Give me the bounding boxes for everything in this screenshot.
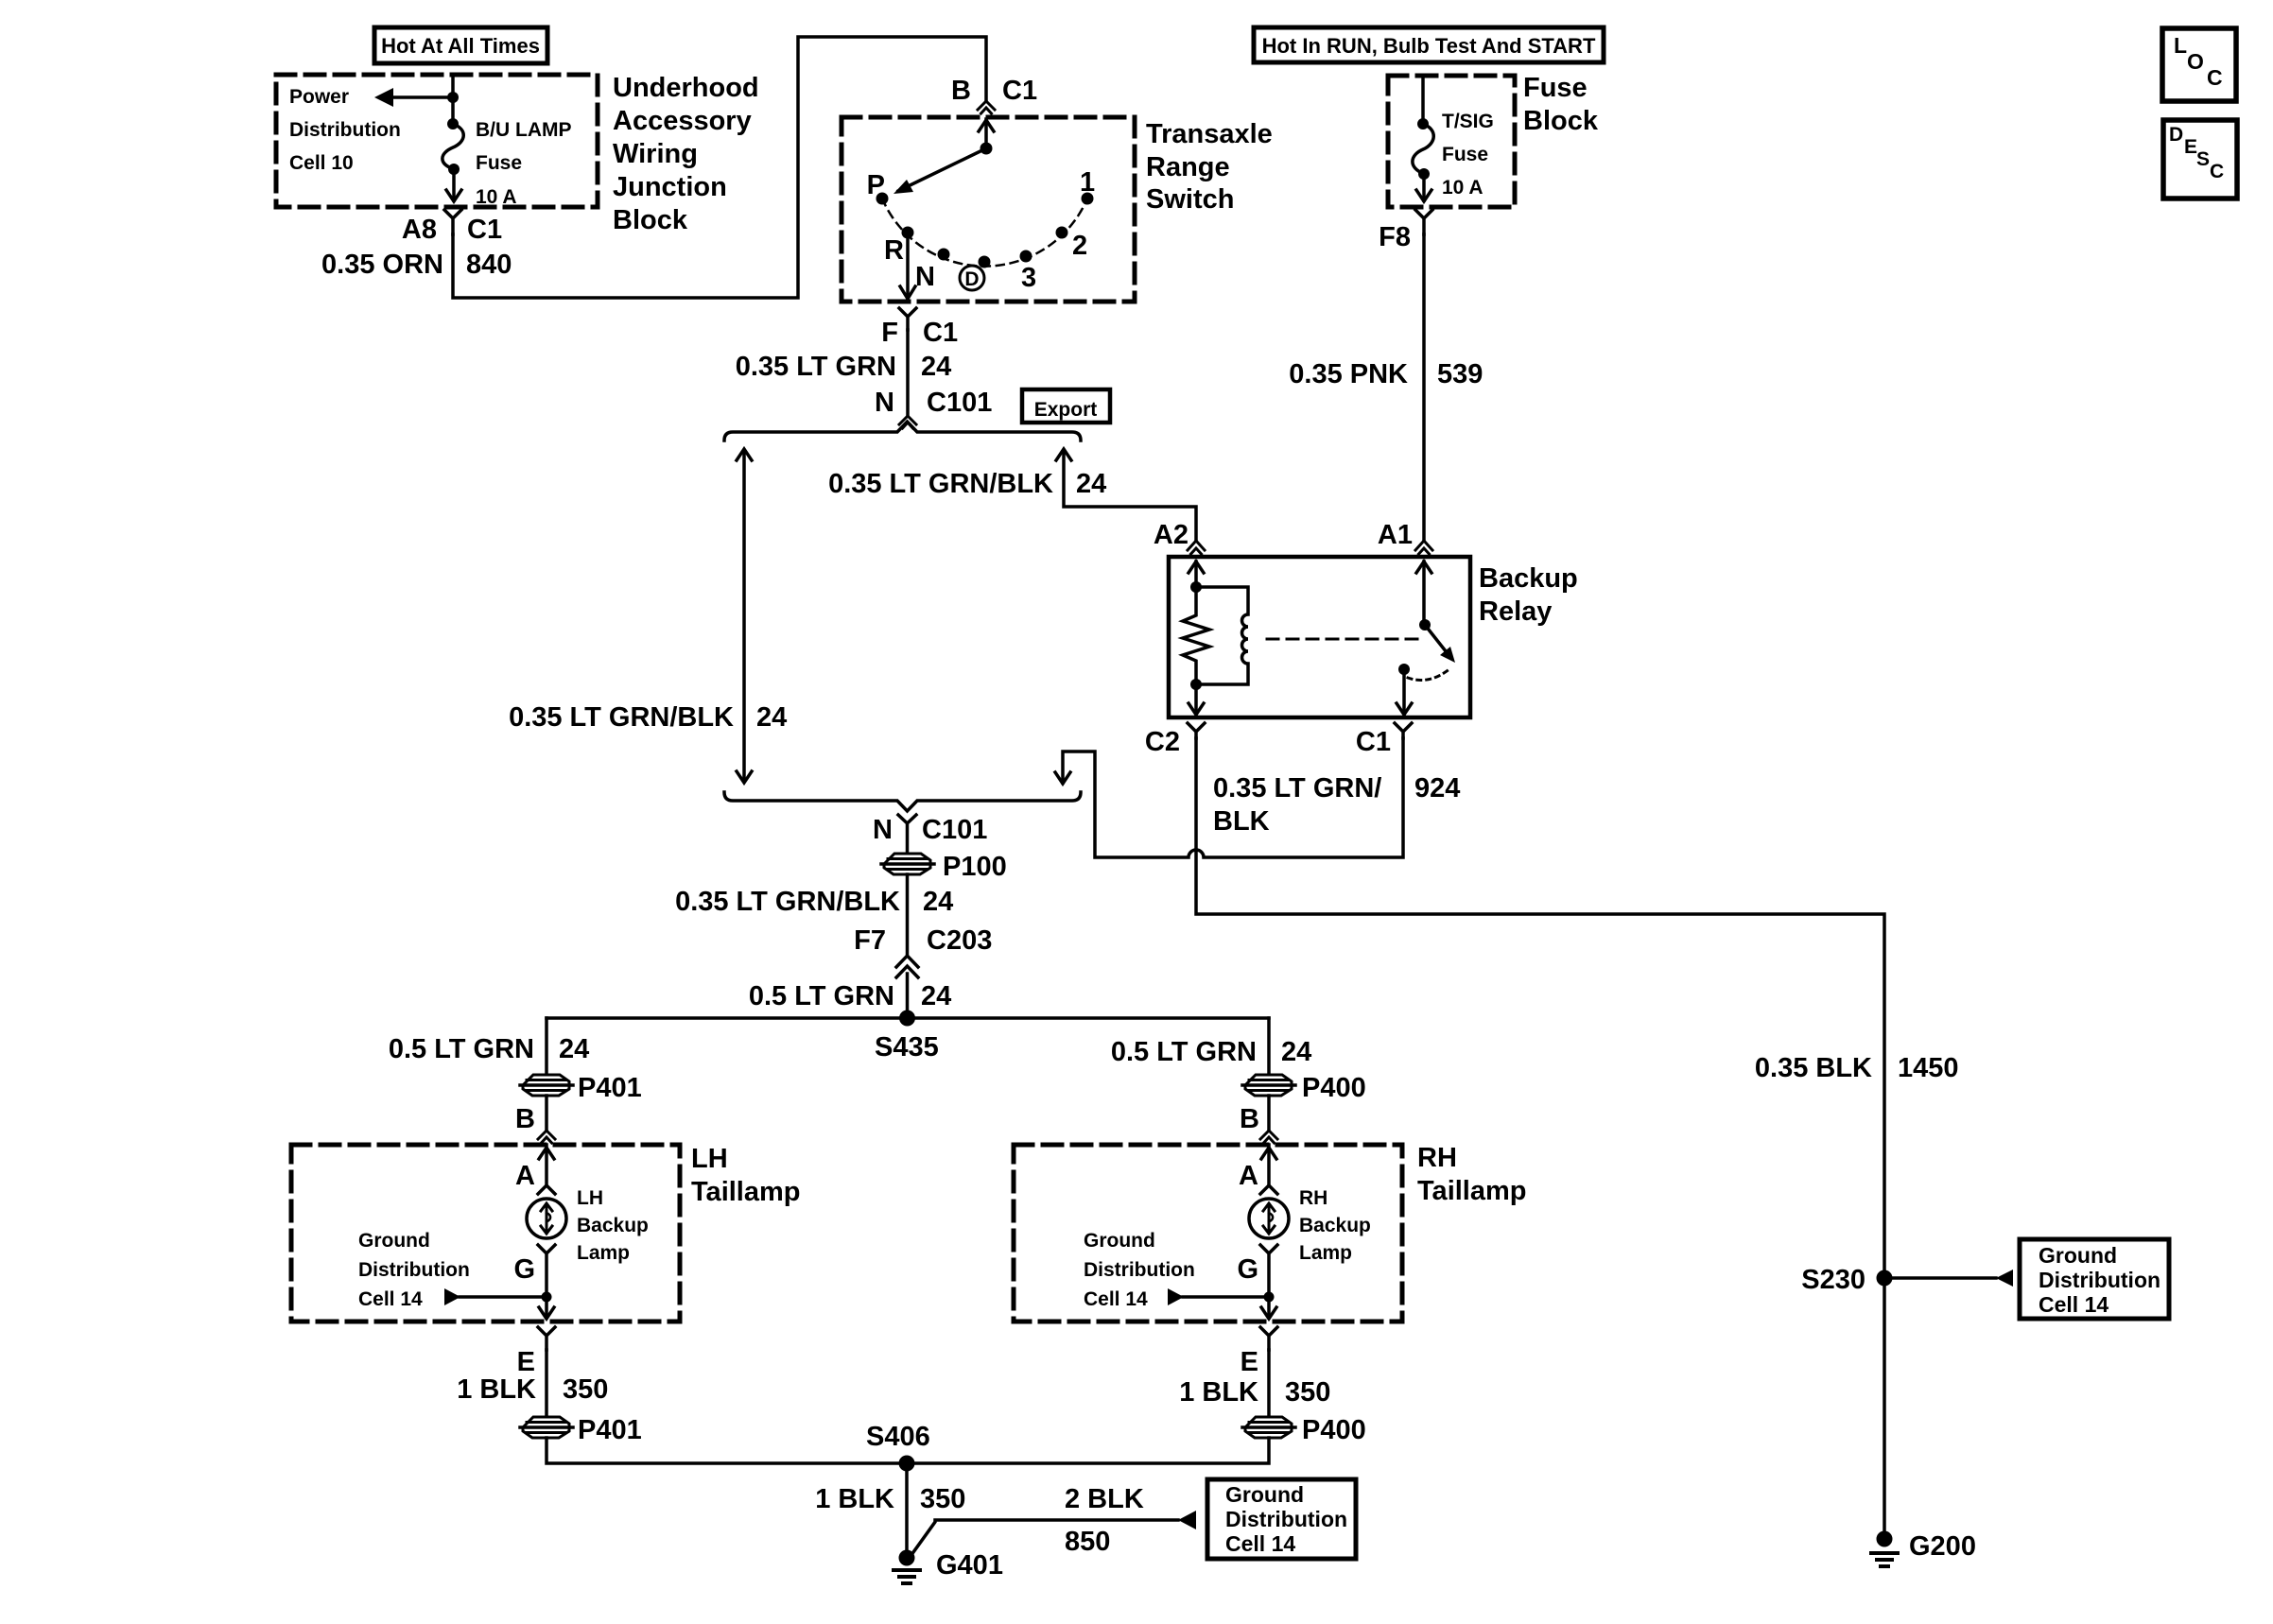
svg-text:LH: LH [577,1187,603,1209]
svg-text:L: L [2174,33,2187,58]
wire: into switch with up arrow [979,119,994,148]
lamp terminal G (Y) [538,1245,555,1297]
svg-text:B: B [951,76,971,106]
relay NO contact exit arrow [1397,669,1412,715]
fuse: B/U LAMP Fuse 10 A [442,118,463,175]
relay movable contact arrow [1425,625,1455,663]
reference box: Ground Distribution Cell 14 (bottom) [1207,1479,1356,1559]
svg-text:350: 350 [563,1374,608,1405]
wire: LH to S406 [547,1438,907,1463]
relay actuating link (dashed) [1267,638,1417,641]
pass-through grommet P401 (lower) [520,1417,573,1438]
svg-text:Fuse: Fuse [1523,73,1588,103]
svg-text:RH: RH [1299,1187,1327,1209]
alternates bracket top [724,422,1081,441]
ground G200 [1871,1531,1898,1567]
svg-text:Power: Power [289,86,349,108]
position 2 [1056,227,1068,239]
svg-text:S230: S230 [1801,1265,1865,1295]
label: D E S C letters [2169,124,2224,182]
connector terminal E (Y, RH) [1260,1327,1277,1350]
svg-text:Cell 14: Cell 14 [2039,1292,2108,1317]
alternates bracket bottom [724,792,1081,811]
svg-text:539: 539 [1437,359,1483,389]
svg-text:E: E [1241,1347,1258,1377]
switch position arc (dashed) [882,199,1087,267]
wire: lamp ground exit arrow (LH) [539,1297,554,1319]
svg-text:P100: P100 [943,852,1007,882]
switch pivot node [980,143,993,155]
svg-text:P400: P400 [1302,1415,1366,1445]
svg-text:Hot In RUN, Bulb Test And STAR: Hot In RUN, Bulb Test And START [1262,34,1596,58]
svg-text:A8: A8 [402,215,437,245]
svg-text:BLK: BLK [1213,806,1270,837]
wire: 0.35 LT GRN/BLK 24 to relay A2 [1056,449,1196,541]
wire: 0.35 ORN 840 to transaxle switch [453,37,986,298]
svg-text:P401: P401 [578,1073,642,1103]
svg-text:G: G [513,1254,535,1285]
wire: 1 BLK 350 to G401 [905,1463,909,1555]
svg-text:0.35 LT GRN/: 0.35 LT GRN/ [1213,773,1381,803]
svg-text:Backup: Backup [577,1215,649,1236]
svg-text:S: S [2196,148,2210,170]
svg-text:B/U LAMP: B/U LAMP [476,119,572,141]
relay resistor [1183,587,1209,684]
LH backup lamp bulb [527,1199,566,1238]
svg-text:24: 24 [923,887,953,917]
svg-text:B: B [515,1104,535,1134]
wire: 0.35 LT GRN/BLK 24 to C203 [906,874,910,955]
svg-text:Ground: Ground [2039,1243,2117,1268]
svg-text:0.35 LT GRN/BLK: 0.35 LT GRN/BLK [675,887,900,917]
svg-text:0.35 BLK: 0.35 BLK [1755,1053,1872,1083]
connector terminal E (Y, LH) [538,1327,555,1350]
wire: 0.5 LT GRN 24 to S435 [906,974,910,1018]
svg-text:C2: C2 [1145,727,1180,757]
svg-text:E: E [517,1347,535,1377]
svg-text:A2: A2 [1154,520,1189,550]
position 3 [1020,251,1032,263]
node: lamp ground junction (LH) [542,1292,552,1303]
label: L O C letters [2174,33,2223,90]
wire: LH drop 0.5 LT GRN 24 [545,1018,548,1076]
relay switch pivot node [1419,619,1431,631]
connector C101 terminal N (Y, lower) [898,815,916,854]
relay switch common arrow [1416,561,1431,625]
connector terminal F8 (Y) [1415,210,1432,234]
svg-text:2 BLK: 2 BLK [1065,1484,1144,1514]
svg-text:Accessory: Accessory [613,106,752,136]
svg-text:840: 840 [466,250,512,280]
connector C101 terminal N (Y) [899,416,916,428]
connector C1 terminal B (Y) [978,101,995,113]
switch wiper arrow to P [894,148,986,194]
svg-text:Underhood: Underhood [613,73,759,103]
svg-text:0.35 LT GRN/BLK: 0.35 LT GRN/BLK [509,702,734,733]
svg-text:Cell 14: Cell 14 [358,1288,423,1310]
svg-text:0.5 LT GRN: 0.5 LT GRN [749,981,894,1011]
wire: 0.35 LT GRN/BLK 24 (double-ended arrow, domestic path) [737,449,752,783]
wire: lamp pin A with up arrow [539,1145,554,1184]
svg-text:1 BLK: 1 BLK [815,1484,894,1514]
svg-text:Relay: Relay [1479,596,1552,627]
svg-text:Block: Block [613,205,688,235]
svg-text:1450: 1450 [1898,1053,1959,1083]
svg-text:Taillamp: Taillamp [1417,1176,1527,1206]
relay coil exit arrow [1189,684,1204,715]
svg-text:A1: A1 [1378,520,1413,550]
svg-text:P401: P401 [578,1415,642,1445]
reference arrow to Ground Distribution Cell 14 (right) [1884,1270,2013,1287]
relay coil feed arrow [1189,561,1204,587]
relay NO contact node [1398,664,1410,675]
wire: RH drop 0.5 LT GRN 24 [1267,1018,1271,1076]
svg-text:Junction: Junction [613,172,727,202]
svg-text:C1: C1 [923,318,958,348]
svg-text:10 A: 10 A [476,186,517,208]
svg-text:1 BLK: 1 BLK [1179,1377,1258,1408]
svg-text:24: 24 [921,981,951,1011]
svg-text:Taillamp: Taillamp [691,1177,801,1207]
transaxle range switch dashed box [842,117,1135,302]
svg-text:C1: C1 [467,215,502,245]
svg-text:N: N [915,262,935,292]
svg-text:R: R [884,235,904,266]
svg-text:G200: G200 [1909,1531,1976,1562]
reference box: Ground Distribution Cell 14 (right) [2020,1239,2169,1319]
fuse block dashed box [1388,76,1515,207]
relay terminal A2 (Y) [1188,541,1205,554]
label box: Hot In RUN, Bulb Test And START [1254,27,1604,62]
label box: Hot At All Times [374,27,547,63]
svg-text:D: D [964,268,979,290]
pass-through grommet P400 (lower) [1242,1417,1295,1438]
lamp terminal A (chevron) [538,1185,555,1194]
wire: fuse output with arrow [1416,174,1431,201]
splice S230 [1877,1270,1893,1287]
svg-text:Lamp: Lamp [1299,1242,1352,1264]
svg-text:C101: C101 [922,815,987,845]
svg-text:C1: C1 [1002,76,1037,106]
svg-text:Ground: Ground [358,1230,430,1252]
RH taillamp dashed box [1014,1145,1402,1322]
svg-text:0.35 LT GRN/BLK: 0.35 LT GRN/BLK [828,469,1053,499]
svg-text:24: 24 [756,702,787,733]
wire: 1 BLK 350 (RH) [1267,1350,1271,1418]
svg-text:Distribution: Distribution [1084,1259,1195,1281]
svg-text:Backup: Backup [1479,563,1578,594]
svg-text:Distribution: Distribution [1225,1507,1347,1531]
reference arrow from Ground Distribution (LH) [444,1288,547,1305]
svg-text:Cell 10: Cell 10 [289,152,354,174]
LH taillamp dashed box [291,1145,680,1322]
svg-text:C1: C1 [1356,727,1391,757]
wire: 0.35 BLK from relay C2 to ground run [1196,738,1884,1531]
svg-text:RH: RH [1417,1143,1457,1173]
svg-text:2: 2 [1072,231,1087,261]
position N [938,249,950,261]
position P [876,193,889,205]
reference arrow from Ground Distribution (RH) [1168,1288,1269,1305]
node: splice to power distribution [447,92,459,103]
svg-text:Transaxle: Transaxle [1146,119,1273,149]
svg-text:Ground: Ground [1084,1230,1155,1252]
connector terminal B (Y) [538,1131,555,1143]
wire: to LH taillamp B [545,1096,548,1131]
svg-text:C: C [2207,65,2223,90]
svg-text:A: A [1239,1161,1258,1191]
svg-text:LH: LH [691,1144,728,1174]
wire: feed into junction block [451,75,455,123]
svg-text:Cell 14: Cell 14 [1084,1288,1148,1310]
svg-text:850: 850 [1065,1527,1110,1557]
wire: 1 BLK 350 (LH) [545,1350,548,1418]
svg-text:24: 24 [1076,469,1106,499]
svg-text:Switch: Switch [1146,184,1234,215]
reference arrow to Power Distribution Cell 10 [374,88,453,107]
pass-through grommet P100 [881,854,934,874]
svg-text:24: 24 [1281,1037,1311,1067]
svg-text:D: D [2169,124,2183,146]
junction block dashed box: Underhood Accessory Wiring Junction Block [276,75,598,207]
svg-text:1 BLK: 1 BLK [457,1374,536,1405]
svg-text:Fuse: Fuse [476,152,522,174]
svg-text:Range: Range [1146,152,1230,182]
svg-text:Ground: Ground [1225,1482,1304,1507]
wire: to RH taillamp B [1267,1096,1271,1131]
svg-text:N: N [875,388,894,418]
label box: Export [1022,389,1110,423]
svg-text:350: 350 [920,1484,965,1514]
svg-text:350: 350 [1285,1377,1330,1408]
svg-text:Backup: Backup [1299,1215,1371,1236]
splice S406 [899,1456,915,1472]
position D dot [979,256,991,268]
in-line connector C203 terminal F7 (double chevron) [896,956,918,977]
reference box: DESC [2163,120,2237,199]
svg-text:0.35 ORN: 0.35 ORN [321,250,443,280]
svg-text:24: 24 [559,1034,589,1064]
ground G401 [894,1550,920,1584]
svg-text:Export: Export [1034,399,1098,421]
svg-text:G401: G401 [936,1550,1003,1581]
svg-text:E: E [2184,136,2197,158]
lamp terminal G (Y, RH) [1260,1245,1277,1297]
backup relay box [1169,557,1470,717]
relay contact travel (dotted arc) [1408,668,1450,680]
connector terminal B (Y, RH) [1260,1131,1277,1143]
RH backup lamp bulb [1249,1199,1289,1238]
wire: 2 BLK 850 to ground distribution [913,1520,1178,1552]
svg-text:Lamp: Lamp [577,1242,630,1264]
svg-text:Hot At All Times: Hot At All Times [381,34,540,58]
pass-through grommet P401 (upper) [520,1075,573,1096]
svg-text:F7: F7 [854,925,886,956]
svg-text:Distribution: Distribution [358,1259,470,1281]
relay node top [1190,581,1202,593]
relay node bottom [1190,679,1202,690]
reference arrow to Ground Distribution Cell 14 [1178,1511,1196,1529]
wire: 0.35 LT GRN/BLK 924 from relay C1 back to bracket [1055,738,1403,857]
wire: fuse output with arrow [446,169,461,201]
svg-text:C203: C203 [927,925,992,956]
splice S435 [899,1011,915,1027]
svg-text:0.35 LT GRN: 0.35 LT GRN [736,352,896,382]
connector C1 terminal F (Y) [899,308,916,330]
reference box: LOC [2162,28,2236,101]
fuse: T/SIG Fuse 10 A [1413,118,1433,180]
svg-text:0.5 LT GRN: 0.5 LT GRN [389,1034,534,1064]
svg-text:Fuse: Fuse [1442,144,1488,165]
svg-text:0.5 LT GRN: 0.5 LT GRN [1111,1037,1257,1067]
svg-text:Distribution: Distribution [289,119,401,141]
relay terminal C1 (Y) [1395,723,1412,738]
svg-text:10 A: 10 A [1442,177,1484,199]
svg-text:B: B [1240,1104,1259,1134]
node: lamp ground junction (RH) [1264,1292,1275,1303]
svg-text:O: O [2187,49,2204,74]
svg-text:Wiring: Wiring [613,139,698,169]
wire: feed into T/SIG fuse [1421,76,1425,123]
svg-text:F: F [881,318,898,348]
svg-text:C101: C101 [927,388,992,418]
svg-text:S406: S406 [866,1422,930,1452]
svg-text:1: 1 [1080,167,1095,198]
svg-text:P400: P400 [1302,1073,1366,1103]
svg-text:3: 3 [1021,263,1036,293]
lamp terminal A (chevron, RH) [1260,1185,1277,1194]
relay coil (inductor) [1196,587,1248,684]
connector C1 terminal A8 (Y) [444,210,461,234]
position 1 [1082,193,1094,205]
svg-text:A: A [515,1161,535,1191]
svg-text:Cell 14: Cell 14 [1225,1531,1295,1556]
position D with circle [960,266,984,290]
wire: RH to S406 [907,1438,1269,1463]
wire: lamp pin A with up arrow (RH) [1261,1145,1276,1184]
relay terminal A1 (Y) [1415,541,1432,554]
svg-text:P: P [867,170,885,200]
svg-text:0.35 PNK: 0.35 PNK [1289,359,1408,389]
pass-through grommet P400 (upper) [1242,1075,1295,1096]
svg-text:24: 24 [921,352,951,382]
svg-text:N: N [873,815,893,845]
wire: R contact down with arrow [900,238,915,299]
svg-text:F8: F8 [1379,222,1411,252]
svg-text:Distribution: Distribution [2039,1268,2160,1292]
svg-text:T/SIG: T/SIG [1442,111,1494,132]
svg-text:S435: S435 [875,1032,939,1063]
wire: 0.35 PNK 539 to relay A1 [1422,234,1426,541]
svg-text:G: G [1237,1254,1258,1285]
wire: 0.5 LT GRN bus S435 [547,1016,1269,1020]
wire: 0.35 LT GRN 24 [906,330,910,416]
svg-text:C: C [2210,161,2224,182]
svg-text:924: 924 [1414,773,1460,803]
relay terminal C2 (Y) [1188,723,1205,738]
position R [902,227,914,239]
wire: lamp ground exit arrow (RH) [1261,1297,1276,1319]
svg-text:Block: Block [1523,106,1599,136]
